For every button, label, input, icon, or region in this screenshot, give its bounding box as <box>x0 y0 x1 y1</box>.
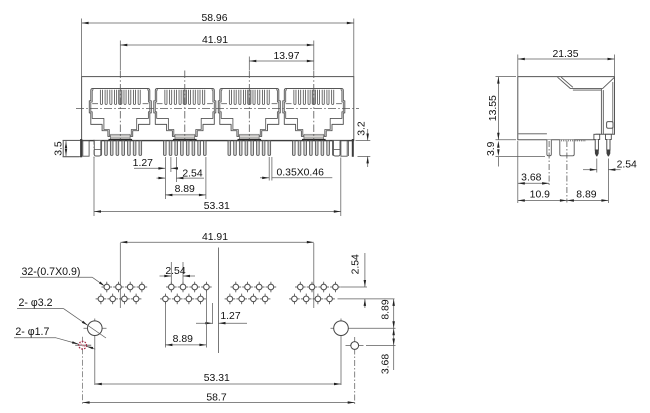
svg-text:58.7: 58.7 <box>206 392 226 403</box>
svg-text:41.91: 41.91 <box>202 232 228 243</box>
RJ45 port 4 opening <box>283 71 345 141</box>
port 3 contact block (shaded) <box>240 134 259 139</box>
svg-text:3.68: 3.68 <box>381 354 392 374</box>
port 2 contact block (shaded) <box>175 134 194 139</box>
svg-text:0.35X0.46: 0.35X0.46 <box>277 168 325 179</box>
dimension 13.97 port pitch <box>249 51 313 62</box>
extension lines below front view pins <box>165 157 206 199</box>
dimension 8.89 side <box>567 189 609 201</box>
mounting hole φ3.2 left <box>84 319 107 386</box>
side view latch window <box>607 122 613 129</box>
dimension 58.96 overall width <box>82 13 354 24</box>
svg-text:2.54: 2.54 <box>182 169 202 180</box>
dimension 10.9 <box>518 189 567 201</box>
port 1 contact block (shaded) <box>111 134 130 139</box>
extension lines for 21.35 <box>518 55 615 77</box>
label 2-φ3.2 with leader <box>17 297 106 338</box>
dimension 2.54 pin pitch <box>157 169 205 180</box>
extension lines for 41.91 (pcb) <box>120 243 313 308</box>
mounting hole φ3.2 right <box>331 319 353 386</box>
port 4 contact block (shaded) <box>304 134 323 139</box>
side view body outline <box>518 77 615 140</box>
svg-text:13.97: 13.97 <box>273 51 299 62</box>
svg-text:41.91: 41.91 <box>202 35 228 46</box>
dimension 8.89 pin group width <box>165 184 206 196</box>
svg-text:8.89: 8.89 <box>175 184 195 195</box>
left end shield legs <box>83 141 101 156</box>
dimension 3.5 left tab height <box>54 140 80 156</box>
hole φ1.7 right <box>346 337 364 404</box>
port 2 centerline <box>184 71 186 140</box>
dimension 3.68 mounting to small hole (right) <box>366 328 396 374</box>
port 3 centerline <box>248 71 250 140</box>
svg-text:3.2: 3.2 <box>357 121 368 136</box>
port 4 centerline <box>313 71 315 140</box>
dimension 58.7 pcb <box>83 392 355 403</box>
dimension 13.55 height <box>488 77 500 140</box>
label 32-(0.7X0.9) with leader <box>20 266 105 286</box>
dimension 41.91 port span <box>120 35 313 46</box>
extension lines below side view <box>518 141 609 203</box>
svg-text:21.35: 21.35 <box>552 49 578 60</box>
dimension 3.9 foot height <box>486 141 499 167</box>
dimension 0.35X0.46 pin cross-section <box>260 157 332 181</box>
svg-text:2- φ3.2: 2- φ3.2 <box>19 297 53 309</box>
side view pins <box>594 134 611 156</box>
svg-text:2.54: 2.54 <box>350 254 361 274</box>
port 2 contact comb <box>165 90 167 105</box>
svg-text:8.89: 8.89 <box>173 334 193 345</box>
svg-text:3.68: 3.68 <box>521 173 541 184</box>
port 1 centerline <box>119 71 121 140</box>
svg-text:32-(0.7X0.9): 32-(0.7X0.9) <box>22 266 81 278</box>
svg-text:53.31: 53.31 <box>204 201 230 212</box>
svg-text:8.89: 8.89 <box>381 299 392 319</box>
side view rear foot <box>560 140 574 203</box>
dimension 3.2 right band height <box>356 121 371 167</box>
side view front foot <box>547 140 551 186</box>
port 3 contact comb <box>229 90 231 105</box>
svg-text:2.54: 2.54 <box>617 160 637 171</box>
extension lines left of side view <box>496 77 546 157</box>
extension lines to 53.31 (front view) <box>94 140 341 216</box>
svg-text:2.54: 2.54 <box>165 266 185 277</box>
dimension 2.54 pcb pitch <box>160 262 196 283</box>
front view: 4-port RJ45 housing outline <box>82 77 354 141</box>
dimension 2.54 pcb row spacing (right) <box>338 253 395 308</box>
label 2-φ1.7 with leader <box>14 326 95 349</box>
hole φ1.7 left (red) <box>75 337 91 404</box>
front view solder pins (8 per port) <box>99 141 335 156</box>
dimension 41.91 pcb <box>120 232 313 244</box>
svg-text:13.55: 13.55 <box>488 95 499 121</box>
port 1 contact comb <box>100 90 102 105</box>
dimension 8.89 pcb group width <box>165 292 206 348</box>
svg-text:2- φ1.7: 2- φ1.7 <box>15 326 49 338</box>
RJ45 port 3 opening <box>218 71 280 141</box>
svg-text:3.5: 3.5 <box>54 141 65 156</box>
dimension 2.54 pin spacing (side) <box>583 160 637 171</box>
dimension 1.27 pcb stagger <box>196 303 247 324</box>
RJ45 port 1 opening <box>89 71 151 141</box>
side view pin-row serrations <box>562 140 585 142</box>
svg-text:58.96: 58.96 <box>201 13 227 24</box>
pcb pin holes 32x <box>96 282 341 305</box>
dimension 53.31 pcb <box>95 373 341 385</box>
svg-text:8.89: 8.89 <box>576 189 596 200</box>
right end shield legs <box>334 139 353 157</box>
front view: horizontal dash-dot centerline <box>76 108 359 110</box>
left shield tab (protruding) <box>63 139 81 157</box>
dimension 8.89 rows to mounting hole (right) <box>352 299 396 328</box>
side view shield fold (chamfer) <box>558 77 615 134</box>
svg-text:1.27: 1.27 <box>220 311 240 322</box>
RJ45 port 2 opening <box>154 71 216 141</box>
pcb footprint centerline <box>218 248 220 354</box>
extension lines above front view <box>82 19 354 77</box>
dimension 3.68 <box>518 173 549 185</box>
svg-text:53.31: 53.31 <box>204 373 230 384</box>
port 4 contact comb <box>294 90 296 105</box>
svg-text:10.9: 10.9 <box>530 189 550 200</box>
dimension 53.31 front view <box>94 201 341 213</box>
side view inner bottom line <box>518 133 547 135</box>
dimension 1.27 pin pitch <box>133 158 178 170</box>
svg-text:3.9: 3.9 <box>486 141 497 156</box>
svg-text:1.27: 1.27 <box>133 158 153 169</box>
dimension 21.35 depth <box>518 49 615 60</box>
